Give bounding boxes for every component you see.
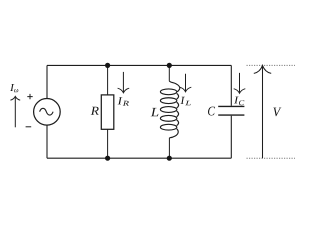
inductor L connector 4 — [177, 120, 179, 126]
current arrow I_L shaft — [185, 74, 187, 92]
dotted line bottom — [247, 157, 296, 159]
inductor L exit hook — [169, 129, 178, 138]
AC source circle — [34, 99, 61, 126]
label L subscript — [185, 101, 191, 105]
label C — [208, 107, 215, 116]
label V — [273, 108, 281, 117]
capacitor C bottom plate — [218, 114, 244, 116]
minus sign of source — [26, 126, 32, 128]
resistor R body — [101, 95, 114, 129]
label I_C — [234, 97, 239, 104]
AC source sine symbol — [40, 108, 54, 115]
label I_omega — [10, 84, 14, 91]
inductor L loop 2 — [160, 98, 176, 104]
capacitor C top plate — [218, 105, 244, 107]
junction dot resistor top — [105, 63, 110, 68]
inductor L loop 3 — [160, 107, 176, 113]
wire bottom rail — [47, 157, 231, 159]
inductor L connector 1 — [177, 93, 179, 99]
junction dot inductor bottom — [167, 156, 172, 161]
current arrow I_C shaft — [239, 73, 241, 93]
wire source branch upper — [46, 65, 48, 98]
wire inductor branch lower — [168, 138, 170, 158]
inductor L loop 4 — [160, 115, 176, 121]
wire source branch lower — [46, 125, 48, 158]
label L — [151, 108, 159, 116]
source current arrow I_omega head — [10, 96, 20, 100]
inductor L loop 1 — [160, 89, 176, 95]
voltage arrow V shaft — [262, 66, 264, 158]
wire resistor branch lower — [107, 129, 109, 158]
voltage arrow V head — [254, 65, 271, 73]
dotted line top — [247, 64, 296, 66]
junction dot resistor bottom — [105, 156, 110, 161]
label omega subscript — [14, 89, 18, 92]
label R — [91, 107, 99, 115]
inductor L connector 2 — [177, 102, 179, 108]
label C subscript — [239, 100, 244, 105]
current arrow I_R head — [118, 88, 130, 93]
wire capacitor branch lower — [230, 116, 232, 159]
label I_L — [180, 97, 184, 104]
wire inductor branch upper — [168, 65, 170, 81]
current arrow I_R shaft — [122, 72, 124, 93]
current arrow I_C head — [234, 89, 246, 94]
source current arrow I_omega shaft — [14, 97, 16, 128]
label R subscript — [123, 101, 129, 106]
wire resistor branch upper — [107, 65, 109, 95]
inductor L entry hook — [169, 81, 179, 92]
inductor L loop 5 — [160, 124, 176, 130]
plus sign of source — [27, 94, 32, 99]
junction dot inductor top — [167, 63, 172, 68]
wire capacitor branch upper — [230, 65, 232, 105]
label I_R — [118, 97, 123, 104]
wire top rail — [47, 64, 231, 66]
inductor L connector 3 — [177, 111, 179, 117]
current arrow I_L head — [180, 87, 192, 92]
